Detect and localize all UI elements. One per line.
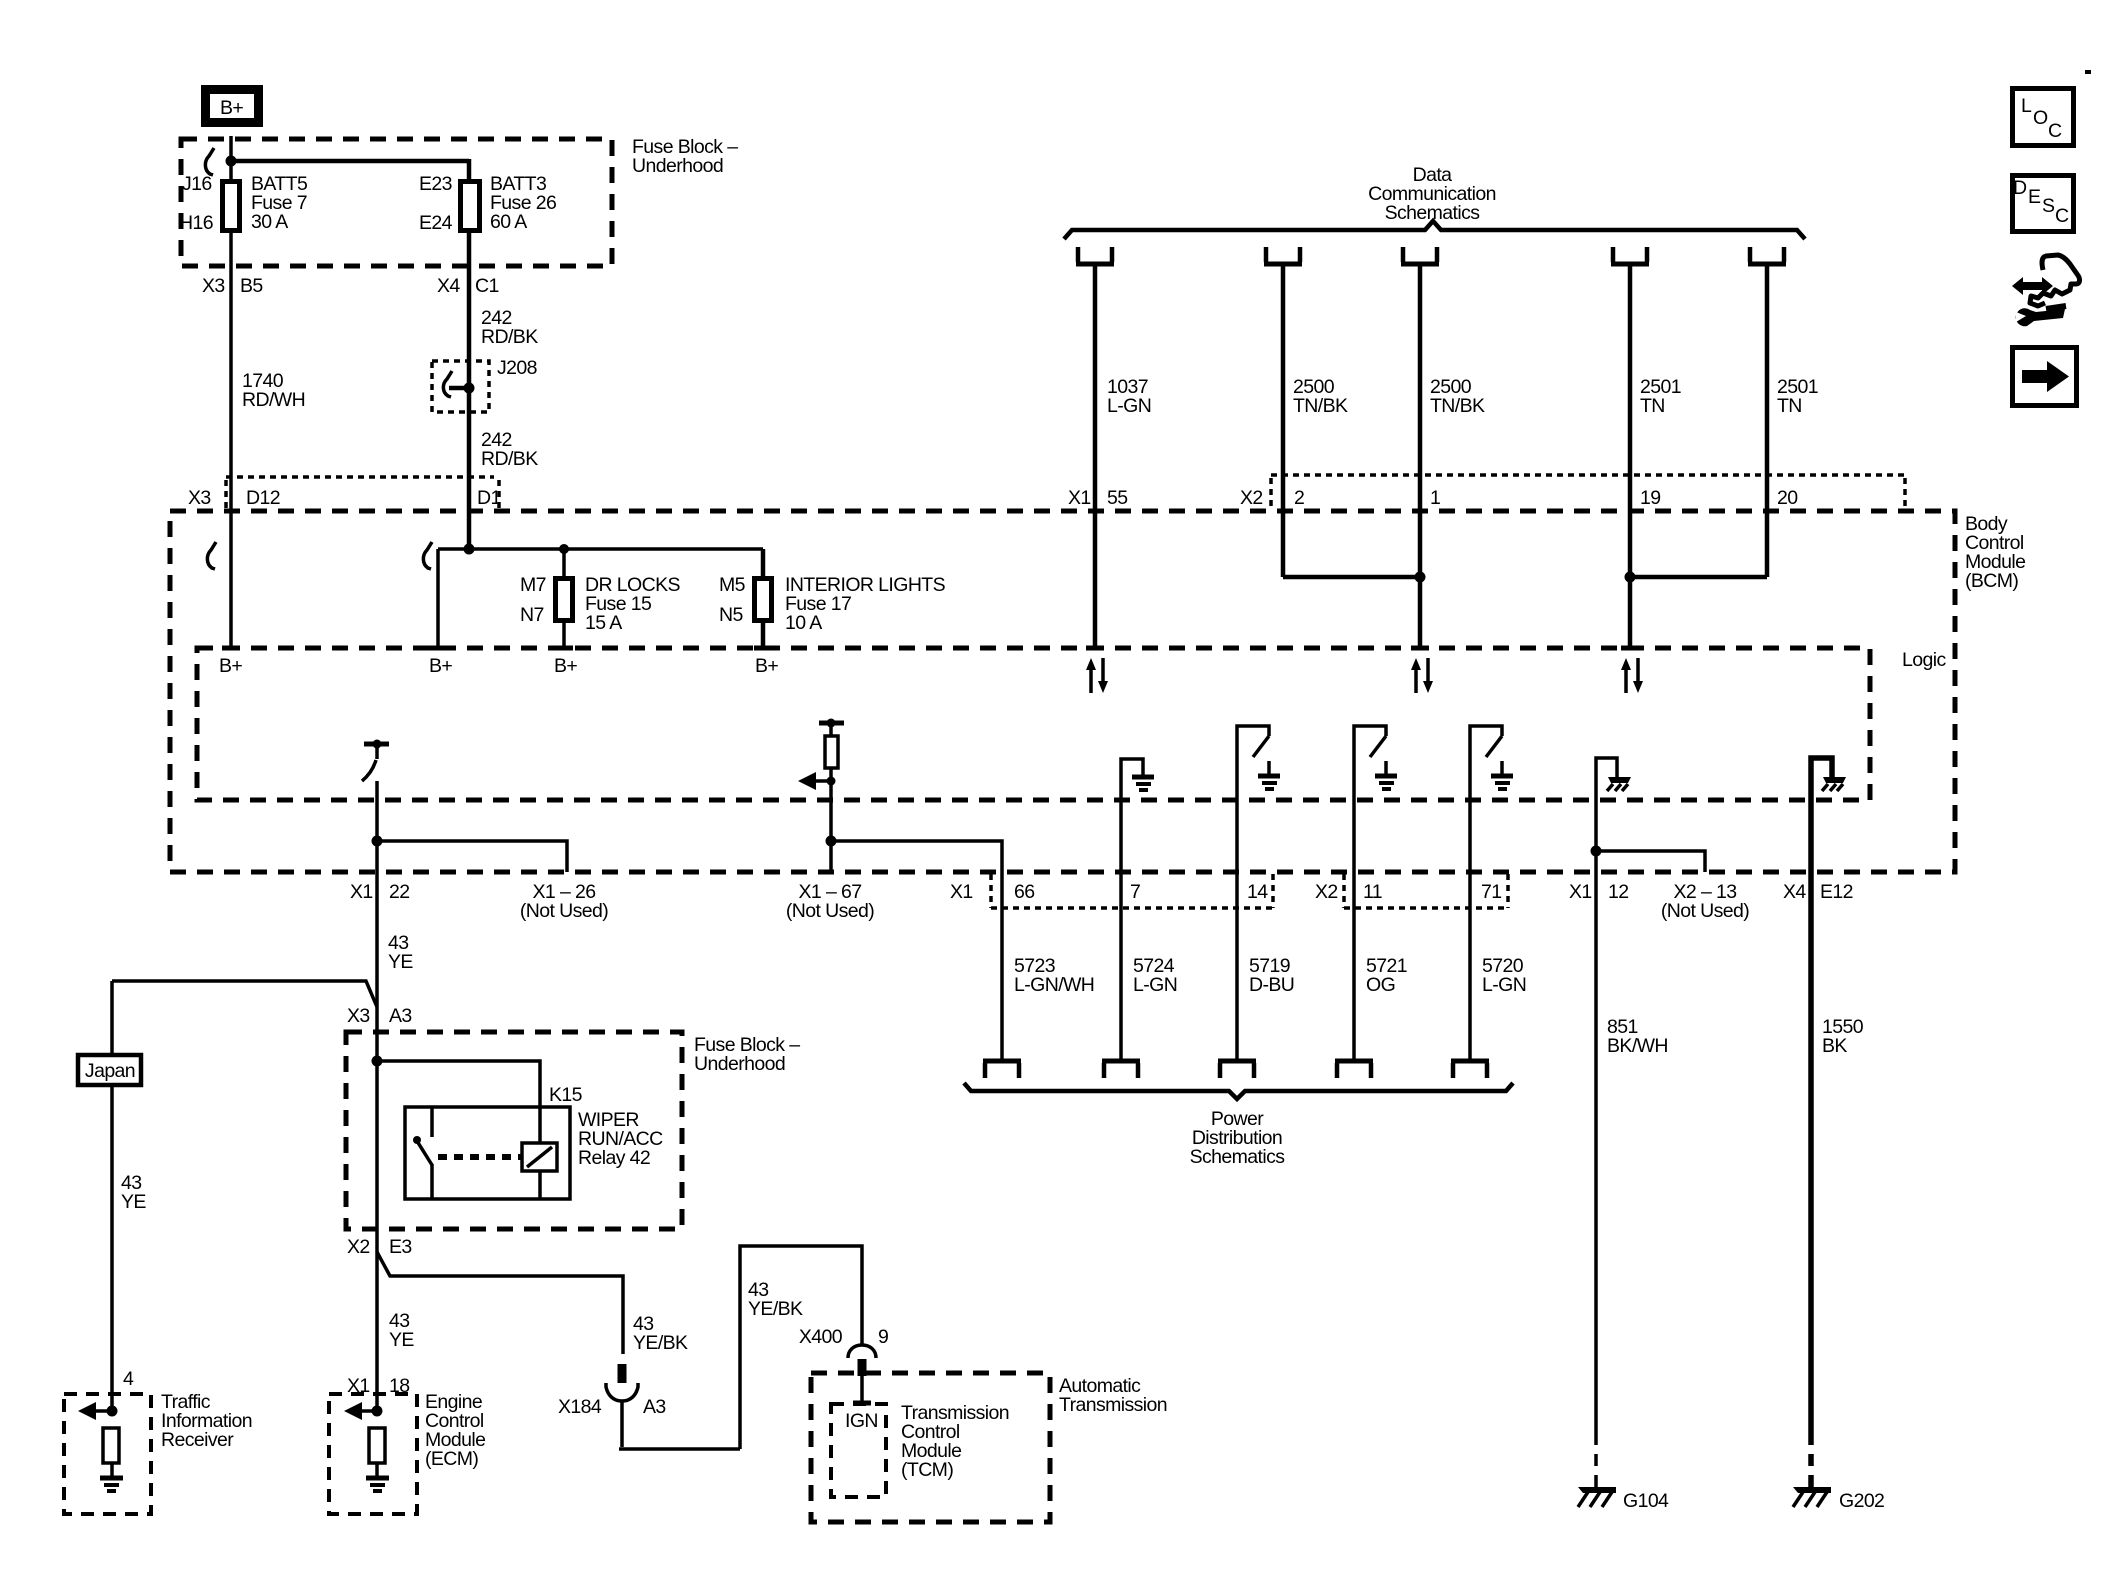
label fuse block underhood bbox=[632, 136, 738, 177]
svg-text:E3: E3 bbox=[389, 1236, 412, 1258]
fuse F17 INTERIOR LIGHTS bbox=[719, 574, 946, 634]
label engine control module bbox=[425, 1391, 485, 1470]
off-page connector 5720 bbox=[1451, 1061, 1489, 1078]
wire 5724 pin 7 bbox=[1119, 872, 1123, 1061]
svg-text:Relay 42: Relay 42 bbox=[578, 1147, 650, 1169]
terminal bar data 55 bbox=[1086, 646, 1104, 651]
wire 5720 pin 71 bbox=[1468, 872, 1472, 1061]
svg-text:A3: A3 bbox=[643, 1396, 666, 1418]
svg-text:C1: C1 bbox=[475, 275, 499, 297]
chassis ground pin 12 internal bbox=[1596, 758, 1631, 872]
svg-text:7: 7 bbox=[1130, 881, 1140, 903]
svg-text:D: D bbox=[2013, 177, 2027, 199]
ecm internal resistor bbox=[369, 1428, 385, 1463]
off-page connector 5719 bbox=[1218, 1061, 1256, 1078]
node junction X2-13 tap bbox=[1591, 846, 1602, 857]
wire b+ 2 down bbox=[436, 549, 440, 646]
svg-text:YE: YE bbox=[389, 1329, 414, 1351]
wire 2501 TN b bbox=[1765, 266, 1770, 577]
svg-text:X184: X184 bbox=[558, 1396, 602, 1418]
svg-text:B+: B+ bbox=[755, 655, 778, 677]
svg-text:TN/BK: TN/BK bbox=[1293, 395, 1348, 417]
pin labels X3 B5 bbox=[202, 275, 263, 297]
svg-text:K15: K15 bbox=[549, 1084, 583, 1106]
svg-text:D1: D1 bbox=[477, 487, 501, 509]
icon DESC button bbox=[2013, 176, 2074, 232]
label automatic transmission bbox=[1059, 1375, 1167, 1416]
wire fuse26 feed down bbox=[467, 159, 472, 181]
wire 851 BK/WH pin 12 bbox=[1594, 872, 1598, 1433]
label power distribution schematics bbox=[1190, 1108, 1286, 1168]
wire into TCM bbox=[860, 1376, 864, 1401]
terminal bar b+ 4 bbox=[754, 646, 772, 651]
wire label 242 RD/BK upper bbox=[481, 307, 538, 348]
node junction on pin19 wire bbox=[1625, 572, 1636, 583]
svg-text:IGN: IGN bbox=[845, 1410, 878, 1432]
splice hook BCM b+ 1 bbox=[207, 542, 216, 569]
comm arrows pin 1 bbox=[1411, 658, 1433, 693]
terminal bar data 19 bbox=[1621, 646, 1639, 651]
fuse F7 BATT5 bbox=[179, 173, 308, 234]
connector X184 bbox=[558, 1364, 666, 1418]
svg-text:19: 19 bbox=[1640, 487, 1661, 509]
splice hook at B+ bus bbox=[205, 148, 214, 175]
svg-text:D-BU: D-BU bbox=[1249, 974, 1294, 996]
traffic information receiver box bbox=[64, 1394, 151, 1514]
switch to ground pin 71 internal bbox=[1470, 726, 1513, 872]
terminal bar b+ 2 bbox=[429, 646, 447, 651]
svg-text:Japan: Japan bbox=[85, 1060, 135, 1082]
svg-text:L-GN: L-GN bbox=[1107, 395, 1151, 417]
svg-text:YE/BK: YE/BK bbox=[633, 1332, 688, 1354]
splice hook BCM b+ 2 bbox=[423, 542, 432, 569]
svg-text:(BCM): (BCM) bbox=[1965, 570, 2018, 592]
wire branch to Japan TIR bbox=[112, 981, 377, 1055]
svg-text:X4: X4 bbox=[437, 275, 460, 297]
svg-text:X400: X400 bbox=[799, 1326, 843, 1348]
fuse block underhood box 2 bbox=[346, 1032, 682, 1229]
wire fuse7 down bbox=[229, 231, 233, 513]
wire label 242 RD/BK lower bbox=[481, 429, 538, 470]
engine control module box bbox=[329, 1394, 417, 1514]
receiver ground bbox=[100, 1478, 123, 1491]
receiver internal wire bbox=[110, 1463, 114, 1476]
wire 1037 L-GN bbox=[1093, 266, 1098, 646]
wire 2501 TN a bbox=[1628, 266, 1633, 646]
ecm internal wire bbox=[375, 1463, 379, 1476]
pin labels X1 55 X2 2 1 19 20 bbox=[1068, 487, 1798, 509]
svg-text:(ECM): (ECM) bbox=[425, 1448, 478, 1470]
svg-text:12: 12 bbox=[1608, 881, 1629, 903]
svg-text:1: 1 bbox=[1430, 487, 1440, 509]
svg-text:X1: X1 bbox=[1569, 881, 1592, 903]
terminal bar b+ 3 bbox=[555, 646, 573, 651]
wire 242 RD/BK down to J208 bbox=[467, 231, 472, 513]
node junction fuse15 tap bbox=[559, 544, 569, 554]
off-page connector wire 2500 b bbox=[1401, 247, 1439, 264]
wire relay feed bbox=[377, 1061, 540, 1144]
connector box X3/X4 into BCM bbox=[226, 477, 499, 509]
svg-text:2: 2 bbox=[1294, 487, 1304, 509]
wire bridge pin20 to pin19 bbox=[1630, 575, 1767, 580]
svg-text:X1: X1 bbox=[950, 881, 973, 903]
node junction relay feed bbox=[372, 1056, 383, 1067]
svg-text:20: 20 bbox=[1777, 487, 1798, 509]
wire to pin 66 bbox=[831, 841, 1002, 872]
svg-text:TN/BK: TN/BK bbox=[1430, 395, 1485, 417]
wire pin 67 down bbox=[829, 781, 833, 872]
node junction pin 66 tap bbox=[826, 836, 837, 847]
svg-text:YE: YE bbox=[388, 951, 413, 973]
automatic transmission box bbox=[811, 1373, 1050, 1522]
label fuse block underhood 2 bbox=[694, 1034, 800, 1075]
svg-text:M5: M5 bbox=[719, 574, 746, 596]
label traffic information receiver bbox=[161, 1391, 252, 1451]
svg-text:(Not Used): (Not Used) bbox=[520, 900, 608, 922]
svg-text:71: 71 bbox=[1481, 881, 1502, 903]
wire 43 YE/BK under X184 bbox=[619, 1246, 862, 1449]
svg-text:YE/BK: YE/BK bbox=[748, 1298, 803, 1320]
svg-text:9: 9 bbox=[878, 1326, 888, 1348]
off-page connector wire 1037 bbox=[1076, 247, 1114, 264]
icon car with arrow and wrench bbox=[2012, 255, 2080, 326]
svg-text:66: 66 bbox=[1014, 881, 1035, 903]
wire internal B+ bus bbox=[438, 547, 763, 551]
switch to ground pin 11 internal bbox=[1354, 726, 1397, 872]
svg-text:OG: OG bbox=[1366, 974, 1395, 996]
svg-text:Underhood: Underhood bbox=[632, 155, 723, 177]
pin labels X3 D12 D1 bbox=[188, 487, 501, 509]
svg-text:A3: A3 bbox=[389, 1005, 412, 1027]
svg-text:E23: E23 bbox=[419, 173, 452, 195]
wire 5723 pin 66 bbox=[1000, 872, 1004, 1061]
svg-text:J208: J208 bbox=[497, 357, 537, 379]
pin labels BCM bottom left bbox=[350, 881, 874, 922]
wire 5719 pin 14 bbox=[1235, 872, 1239, 1061]
svg-text:60 A: 60 A bbox=[490, 211, 527, 233]
brace data communication bbox=[1064, 221, 1805, 239]
svg-text:B5: B5 bbox=[240, 275, 263, 297]
terminal bar IGN bbox=[853, 1401, 871, 1406]
pin labels BCM bottom right bbox=[950, 881, 1853, 922]
wire 43 YE to receiver bbox=[110, 1085, 114, 1413]
svg-text:B+: B+ bbox=[554, 655, 577, 677]
wire 2500 TN/BK b bbox=[1418, 266, 1423, 646]
page mark bbox=[2085, 70, 2091, 74]
node junction on pin1 wire bbox=[1415, 572, 1426, 583]
wire label 1740 RD/WH bbox=[242, 370, 305, 411]
wire 43 YE main down from pin 22 bbox=[375, 872, 379, 1413]
svg-text:Transmission: Transmission bbox=[1059, 1394, 1167, 1416]
pin labels X2 E3 bbox=[347, 1236, 412, 1258]
wire from B+ to fuse 7 bbox=[229, 136, 233, 181]
relay K15 wiper run/acc bbox=[405, 1107, 570, 1199]
svg-text:L: L bbox=[2021, 95, 2032, 117]
svg-text:Receiver: Receiver bbox=[161, 1429, 234, 1451]
svg-text:X2: X2 bbox=[347, 1236, 370, 1258]
receiver internal arrow bbox=[78, 1402, 118, 1420]
node junction D1 bus bbox=[464, 544, 475, 555]
svg-text:Schematics: Schematics bbox=[1190, 1146, 1286, 1168]
wire to fuse 17 bbox=[761, 549, 766, 578]
svg-text:X3: X3 bbox=[188, 487, 211, 509]
pin labels X1 18 bbox=[347, 1375, 410, 1397]
wire fuse15 down bbox=[562, 620, 566, 646]
chassis ground pin E12 internal bbox=[1811, 758, 1846, 872]
svg-text:X2: X2 bbox=[1315, 881, 1338, 903]
svg-text:14: 14 bbox=[1247, 881, 1268, 903]
svg-text:D12: D12 bbox=[246, 487, 280, 509]
svg-text:E12: E12 bbox=[1820, 881, 1853, 903]
comm arrows pin 55 bbox=[1086, 658, 1108, 693]
terminal bar b+ 1 bbox=[222, 646, 240, 651]
node junction X1-26 tap bbox=[372, 836, 383, 847]
logic box bbox=[197, 648, 1870, 800]
svg-text:B+: B+ bbox=[220, 97, 243, 119]
wire to X1-26 bbox=[377, 841, 567, 872]
wire B+ bus to fuse 26 bbox=[231, 159, 469, 164]
svg-text:55: 55 bbox=[1107, 487, 1128, 509]
svg-text:BK/WH: BK/WH bbox=[1607, 1035, 1668, 1057]
svg-text:15 A: 15 A bbox=[585, 612, 622, 634]
wire 2500 TN/BK a bbox=[1281, 266, 1286, 577]
wire 1550 dashed segment bbox=[1808, 1433, 1814, 1490]
svg-text:Logic: Logic bbox=[1902, 649, 1946, 671]
switch to ground pin 14 internal bbox=[1237, 726, 1280, 872]
svg-text:X1: X1 bbox=[1068, 487, 1091, 509]
off-page connector 5723 bbox=[983, 1061, 1021, 1078]
svg-text:S: S bbox=[2042, 195, 2055, 217]
wire pin 22 down bbox=[375, 781, 379, 872]
svg-text:J16: J16 bbox=[182, 173, 212, 195]
svg-text:22: 22 bbox=[389, 881, 410, 903]
receiver internal resistor bbox=[103, 1428, 119, 1463]
svg-text:Underhood: Underhood bbox=[694, 1053, 785, 1075]
svg-text:C: C bbox=[2048, 120, 2062, 142]
tcm inner box IGN bbox=[831, 1404, 886, 1497]
svg-text:11: 11 bbox=[1363, 881, 1382, 903]
svg-text:E24: E24 bbox=[419, 212, 453, 234]
svg-text:RD/WH: RD/WH bbox=[242, 389, 305, 411]
svg-text:H16: H16 bbox=[179, 212, 213, 234]
off-page connector 5724 bbox=[1102, 1061, 1140, 1078]
pin labels X3 A3 bbox=[347, 1005, 412, 1027]
svg-text:X3: X3 bbox=[347, 1005, 370, 1027]
wire label 43 YE lower bbox=[389, 1310, 414, 1351]
node B+ battery feed terminal bbox=[206, 90, 259, 123]
label body control module bbox=[1965, 513, 2025, 592]
fuse F26 BATT3 bbox=[419, 173, 556, 234]
svg-text:M7: M7 bbox=[520, 574, 546, 596]
fuse block underhood box 1 bbox=[181, 139, 612, 266]
icon forward arrow button bbox=[2013, 348, 2077, 406]
off-page connector wire 2501 b bbox=[1748, 247, 1786, 264]
svg-text:10 A: 10 A bbox=[785, 612, 822, 634]
wire fuse17 down bbox=[761, 620, 766, 646]
svg-text:(Not Used): (Not Used) bbox=[1661, 900, 1749, 922]
svg-text:(TCM): (TCM) bbox=[901, 1459, 953, 1481]
svg-text:X4: X4 bbox=[1783, 881, 1806, 903]
wire D12 inside BCM bbox=[229, 513, 233, 646]
node junction B+ bus bbox=[226, 156, 237, 167]
svg-text:TN: TN bbox=[1777, 395, 1802, 417]
svg-text:N7: N7 bbox=[520, 604, 544, 626]
svg-text:L-GN/WH: L-GN/WH bbox=[1014, 974, 1094, 996]
connector Japan bbox=[78, 1055, 141, 1085]
label wiper run/acc relay 42 bbox=[578, 1109, 663, 1169]
svg-text:RD/BK: RD/BK bbox=[481, 326, 538, 348]
svg-text:O: O bbox=[2033, 107, 2048, 129]
ground pin 7 internal bbox=[1121, 759, 1154, 872]
svg-text:G104: G104 bbox=[1623, 1490, 1669, 1512]
svg-text:C: C bbox=[2055, 205, 2069, 227]
ground G104 bbox=[1578, 1487, 1669, 1512]
fuse F15 DR LOCKS bbox=[520, 574, 680, 634]
svg-text:G202: G202 bbox=[1839, 1490, 1884, 1512]
svg-text:B+: B+ bbox=[429, 655, 452, 677]
connector box X1 power pins bbox=[991, 874, 1273, 908]
wire to fuse 15 bbox=[562, 549, 566, 578]
wire 851 dashed segment bbox=[1594, 1433, 1598, 1490]
terminal bar data 1 bbox=[1411, 646, 1429, 651]
svg-text:L-GN: L-GN bbox=[1133, 974, 1177, 996]
ground G202 bbox=[1793, 1487, 1884, 1512]
svg-text:E: E bbox=[2028, 186, 2041, 208]
switch pin 22 bbox=[362, 740, 389, 782]
wire 43 YE/BK branch to X184 bbox=[377, 1252, 623, 1354]
svg-text:TN: TN bbox=[1640, 395, 1665, 417]
svg-text:B+: B+ bbox=[219, 655, 242, 677]
ecm ground bbox=[366, 1478, 389, 1491]
wire to X2-13 bbox=[1596, 851, 1705, 872]
brace power distribution bbox=[964, 1083, 1513, 1099]
node B+ labels row bbox=[219, 655, 778, 677]
svg-text:X3: X3 bbox=[202, 275, 225, 297]
off-page connector wire 2500 a bbox=[1264, 247, 1302, 264]
wire bridge pin2 to pin1 bbox=[1283, 575, 1420, 580]
connector box X2 power pins bbox=[1344, 874, 1508, 908]
svg-text:L-GN: L-GN bbox=[1482, 974, 1526, 996]
svg-text:4: 4 bbox=[123, 1368, 134, 1390]
svg-text:BK: BK bbox=[1822, 1035, 1847, 1057]
driver output pin 67 bbox=[798, 719, 844, 791]
icon LOC button bbox=[2013, 89, 2074, 146]
wire D1 inside BCM bbox=[467, 513, 472, 549]
connector box X2 data pins bbox=[1271, 475, 1906, 509]
off-page connector wire 2501 a bbox=[1611, 247, 1649, 264]
wire 5721 pin 11 bbox=[1352, 872, 1356, 1061]
svg-text:(Not Used): (Not Used) bbox=[786, 900, 874, 922]
ecm internal arrow bbox=[344, 1402, 383, 1420]
body control module BCM box bbox=[170, 511, 1955, 872]
comm arrows pin 19 bbox=[1621, 658, 1643, 693]
svg-text:YE: YE bbox=[121, 1191, 146, 1213]
wire 1550 BK pin E12 bbox=[1808, 872, 1814, 1433]
svg-text:30 A: 30 A bbox=[251, 211, 288, 233]
pin labels X4 C1 bbox=[437, 275, 499, 297]
label transmission control module bbox=[901, 1402, 1009, 1481]
label data communication schematics bbox=[1368, 164, 1496, 224]
svg-text:X1: X1 bbox=[350, 881, 373, 903]
svg-text:RD/BK: RD/BK bbox=[481, 448, 538, 470]
svg-text:N5: N5 bbox=[719, 604, 743, 626]
splice J208 bbox=[432, 357, 537, 412]
connector X400 bbox=[799, 1326, 888, 1376]
off-page connector 5721 bbox=[1335, 1061, 1373, 1078]
svg-text:X2: X2 bbox=[1240, 487, 1263, 509]
